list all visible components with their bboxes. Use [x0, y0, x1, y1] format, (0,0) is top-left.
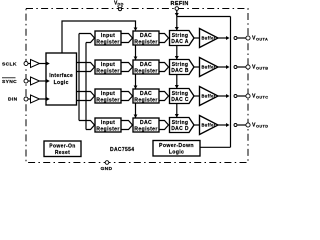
SCLK input buffer	[28, 60, 50, 68]
svg-text:Register: Register	[96, 97, 120, 103]
svg-text:Reset: Reset	[55, 150, 70, 156]
wire REFIN chain String DAC C to D	[175, 104, 179, 118]
wire DAC register chain B to C	[134, 74, 138, 89]
svg-text:DAC: DAC	[140, 62, 152, 68]
power-down switch D	[234, 124, 237, 127]
Interface Logic block	[46, 53, 77, 105]
svg-text:OUTB: OUTB	[256, 65, 268, 70]
svg-text:Register: Register	[134, 68, 158, 74]
String DAC B	[170, 60, 195, 75]
bus arrow Input Register C to DAC Register C	[121, 92, 133, 101]
input data bus vertical rail (bottom)	[85, 43, 87, 130]
bus arrow DAC Register B to String DAC B	[159, 63, 169, 72]
wire REFIN junction to right bus	[177, 16, 231, 18]
svg-text:Buffer: Buffer	[202, 94, 216, 99]
svg-text:DAC A: DAC A	[171, 39, 188, 45]
VOUTD terminal	[246, 123, 250, 127]
REFIN terminal	[175, 7, 179, 11]
String DAC A	[170, 31, 195, 46]
output buffer C	[200, 87, 219, 106]
wire switch D to VOUTD terminal	[237, 124, 246, 126]
Input Register C	[95, 89, 121, 103]
GND terminal	[105, 161, 109, 165]
svg-text:DAC: DAC	[140, 120, 152, 126]
DAC Register A	[133, 31, 159, 45]
input data bus vertical rail (top)	[78, 34, 80, 121]
svg-text:Power-Down: Power-Down	[159, 143, 194, 149]
svg-text:Input: Input	[101, 33, 115, 39]
bus arrow into Input Register C	[77, 92, 95, 101]
svg-text:Logic: Logic	[54, 80, 69, 86]
svg-text:DAC B: DAC B	[171, 68, 189, 74]
SCLK terminal	[24, 62, 28, 66]
svg-text:DAC: DAC	[140, 33, 152, 39]
wire DAC register chain A to B	[134, 45, 138, 60]
wire interface to DAC-register load bus	[62, 21, 137, 53]
Input Register A	[95, 31, 121, 45]
wire switch B to VOUTB terminal	[237, 66, 246, 68]
svg-text:DAC C: DAC C	[171, 97, 189, 103]
DAC Register C	[133, 89, 159, 103]
Power-Down Logic block	[153, 141, 200, 157]
DAC Register D	[133, 118, 159, 132]
svg-text:Input: Input	[101, 62, 115, 68]
right vertical bus	[230, 17, 232, 148]
String DAC D	[170, 118, 195, 133]
bus arrow DAC Register C to String DAC C	[159, 92, 169, 101]
svg-text:Input: Input	[101, 91, 115, 97]
VOUTC terminal	[246, 94, 250, 98]
svg-text:OUTC: OUTC	[256, 94, 268, 99]
svg-text:OUTD: OUTD	[256, 123, 268, 128]
output buffer D	[200, 116, 219, 135]
wire switch A to VOUTA terminal	[237, 37, 246, 39]
svg-text:SYNC: SYNC	[2, 79, 17, 85]
wire String DAC C to buffer C	[194, 95, 200, 97]
wire REFIN down to junction	[175, 10, 179, 16]
bus arrow DAC Register D to String DAC D	[159, 121, 169, 130]
wire buffer B output with arrow	[218, 65, 230, 69]
power-down switch A	[234, 37, 237, 40]
SCLK pin label	[2, 62, 17, 68]
svg-text:Register: Register	[96, 126, 120, 132]
DIN input buffer	[28, 95, 50, 103]
svg-text:String: String	[172, 120, 189, 126]
wire String DAC A to buffer A	[194, 37, 200, 39]
SYNC terminal	[24, 79, 28, 83]
VOUTD label	[252, 122, 268, 128]
wire String DAC D to buffer D	[194, 124, 200, 126]
svg-text:String: String	[172, 62, 189, 68]
VDD terminal	[118, 6, 123, 11]
Input Register B	[95, 60, 121, 74]
VOUTB terminal	[246, 65, 250, 69]
svg-text:Buffer: Buffer	[202, 65, 216, 70]
svg-text:DIN: DIN	[8, 97, 18, 103]
svg-text:Input: Input	[101, 120, 115, 126]
package boundary dash-dot border	[26, 9, 248, 163]
bus arrow into Input Register D	[79, 121, 95, 130]
wire bus to power-down logic	[200, 146, 231, 148]
bus arrow into Input Register B	[77, 63, 95, 72]
wire buffer C output with arrow	[218, 94, 230, 98]
svg-text:Register: Register	[96, 68, 120, 74]
bus arrow into Input Register A	[79, 34, 95, 43]
svg-text:REFIN: REFIN	[171, 1, 189, 7]
svg-text:Buffer: Buffer	[202, 36, 216, 41]
bus arrow Input Register A to DAC Register A	[121, 34, 133, 43]
svg-text:String: String	[172, 33, 189, 39]
svg-text:SCLK: SCLK	[2, 62, 17, 68]
wire buffer D output with arrow	[218, 123, 230, 127]
svg-text:OUTA: OUTA	[256, 36, 268, 41]
wire REFIN chain String DAC A to B	[175, 46, 179, 60]
output buffer A	[200, 29, 219, 48]
wire switch C to VOUTC terminal	[237, 95, 246, 97]
VOUTB label	[252, 64, 268, 70]
SYNC pin label (active low overline)	[2, 78, 17, 85]
svg-text:DAC7554: DAC7554	[110, 147, 134, 153]
power-down switch C	[234, 95, 237, 98]
svg-text:DAC D: DAC D	[171, 126, 189, 132]
bus arrow Input Register D to DAC Register D	[121, 121, 133, 130]
power-down switch B	[234, 66, 237, 69]
VOUTC label	[252, 93, 268, 99]
svg-text:DAC: DAC	[140, 91, 152, 97]
svg-text:Logic: Logic	[169, 149, 185, 155]
svg-text:DD: DD	[118, 3, 124, 7]
DIN terminal	[24, 97, 28, 101]
VOUTA label	[252, 35, 268, 41]
svg-text:Register: Register	[96, 39, 120, 45]
wire DAC register chain C to D	[134, 103, 138, 118]
DAC Register B	[133, 60, 159, 74]
DIN pin label	[8, 97, 18, 103]
DAC7554 device label	[110, 147, 134, 153]
svg-text:Register: Register	[134, 39, 158, 45]
wire REFIN chain String DAC B to C	[175, 75, 179, 89]
String DAC C	[170, 89, 195, 104]
bus arrow Input Register B to DAC Register B	[121, 63, 133, 72]
SYNC input buffer	[28, 77, 50, 85]
output buffer B	[200, 58, 219, 77]
svg-text:Register: Register	[134, 97, 158, 103]
wire String DAC B to buffer B	[194, 66, 200, 68]
VOUTA terminal	[246, 36, 250, 40]
svg-text:Interface: Interface	[49, 73, 73, 79]
VDD pin label	[114, 1, 124, 7]
GND label	[101, 166, 113, 172]
svg-text:Register: Register	[134, 126, 158, 132]
bus arrow DAC Register A to String DAC A	[159, 34, 169, 43]
Input Register D	[95, 118, 121, 132]
wire REFIN chain into String DAC A	[175, 17, 179, 31]
REFIN pin label	[171, 1, 189, 7]
svg-text:Power-On: Power-On	[49, 144, 75, 150]
wire buffer A output with arrow	[218, 36, 230, 40]
Power-On Reset block	[44, 141, 81, 157]
svg-text:Buffer: Buffer	[202, 123, 216, 128]
svg-text:GND: GND	[101, 166, 113, 172]
svg-text:String: String	[172, 91, 189, 97]
